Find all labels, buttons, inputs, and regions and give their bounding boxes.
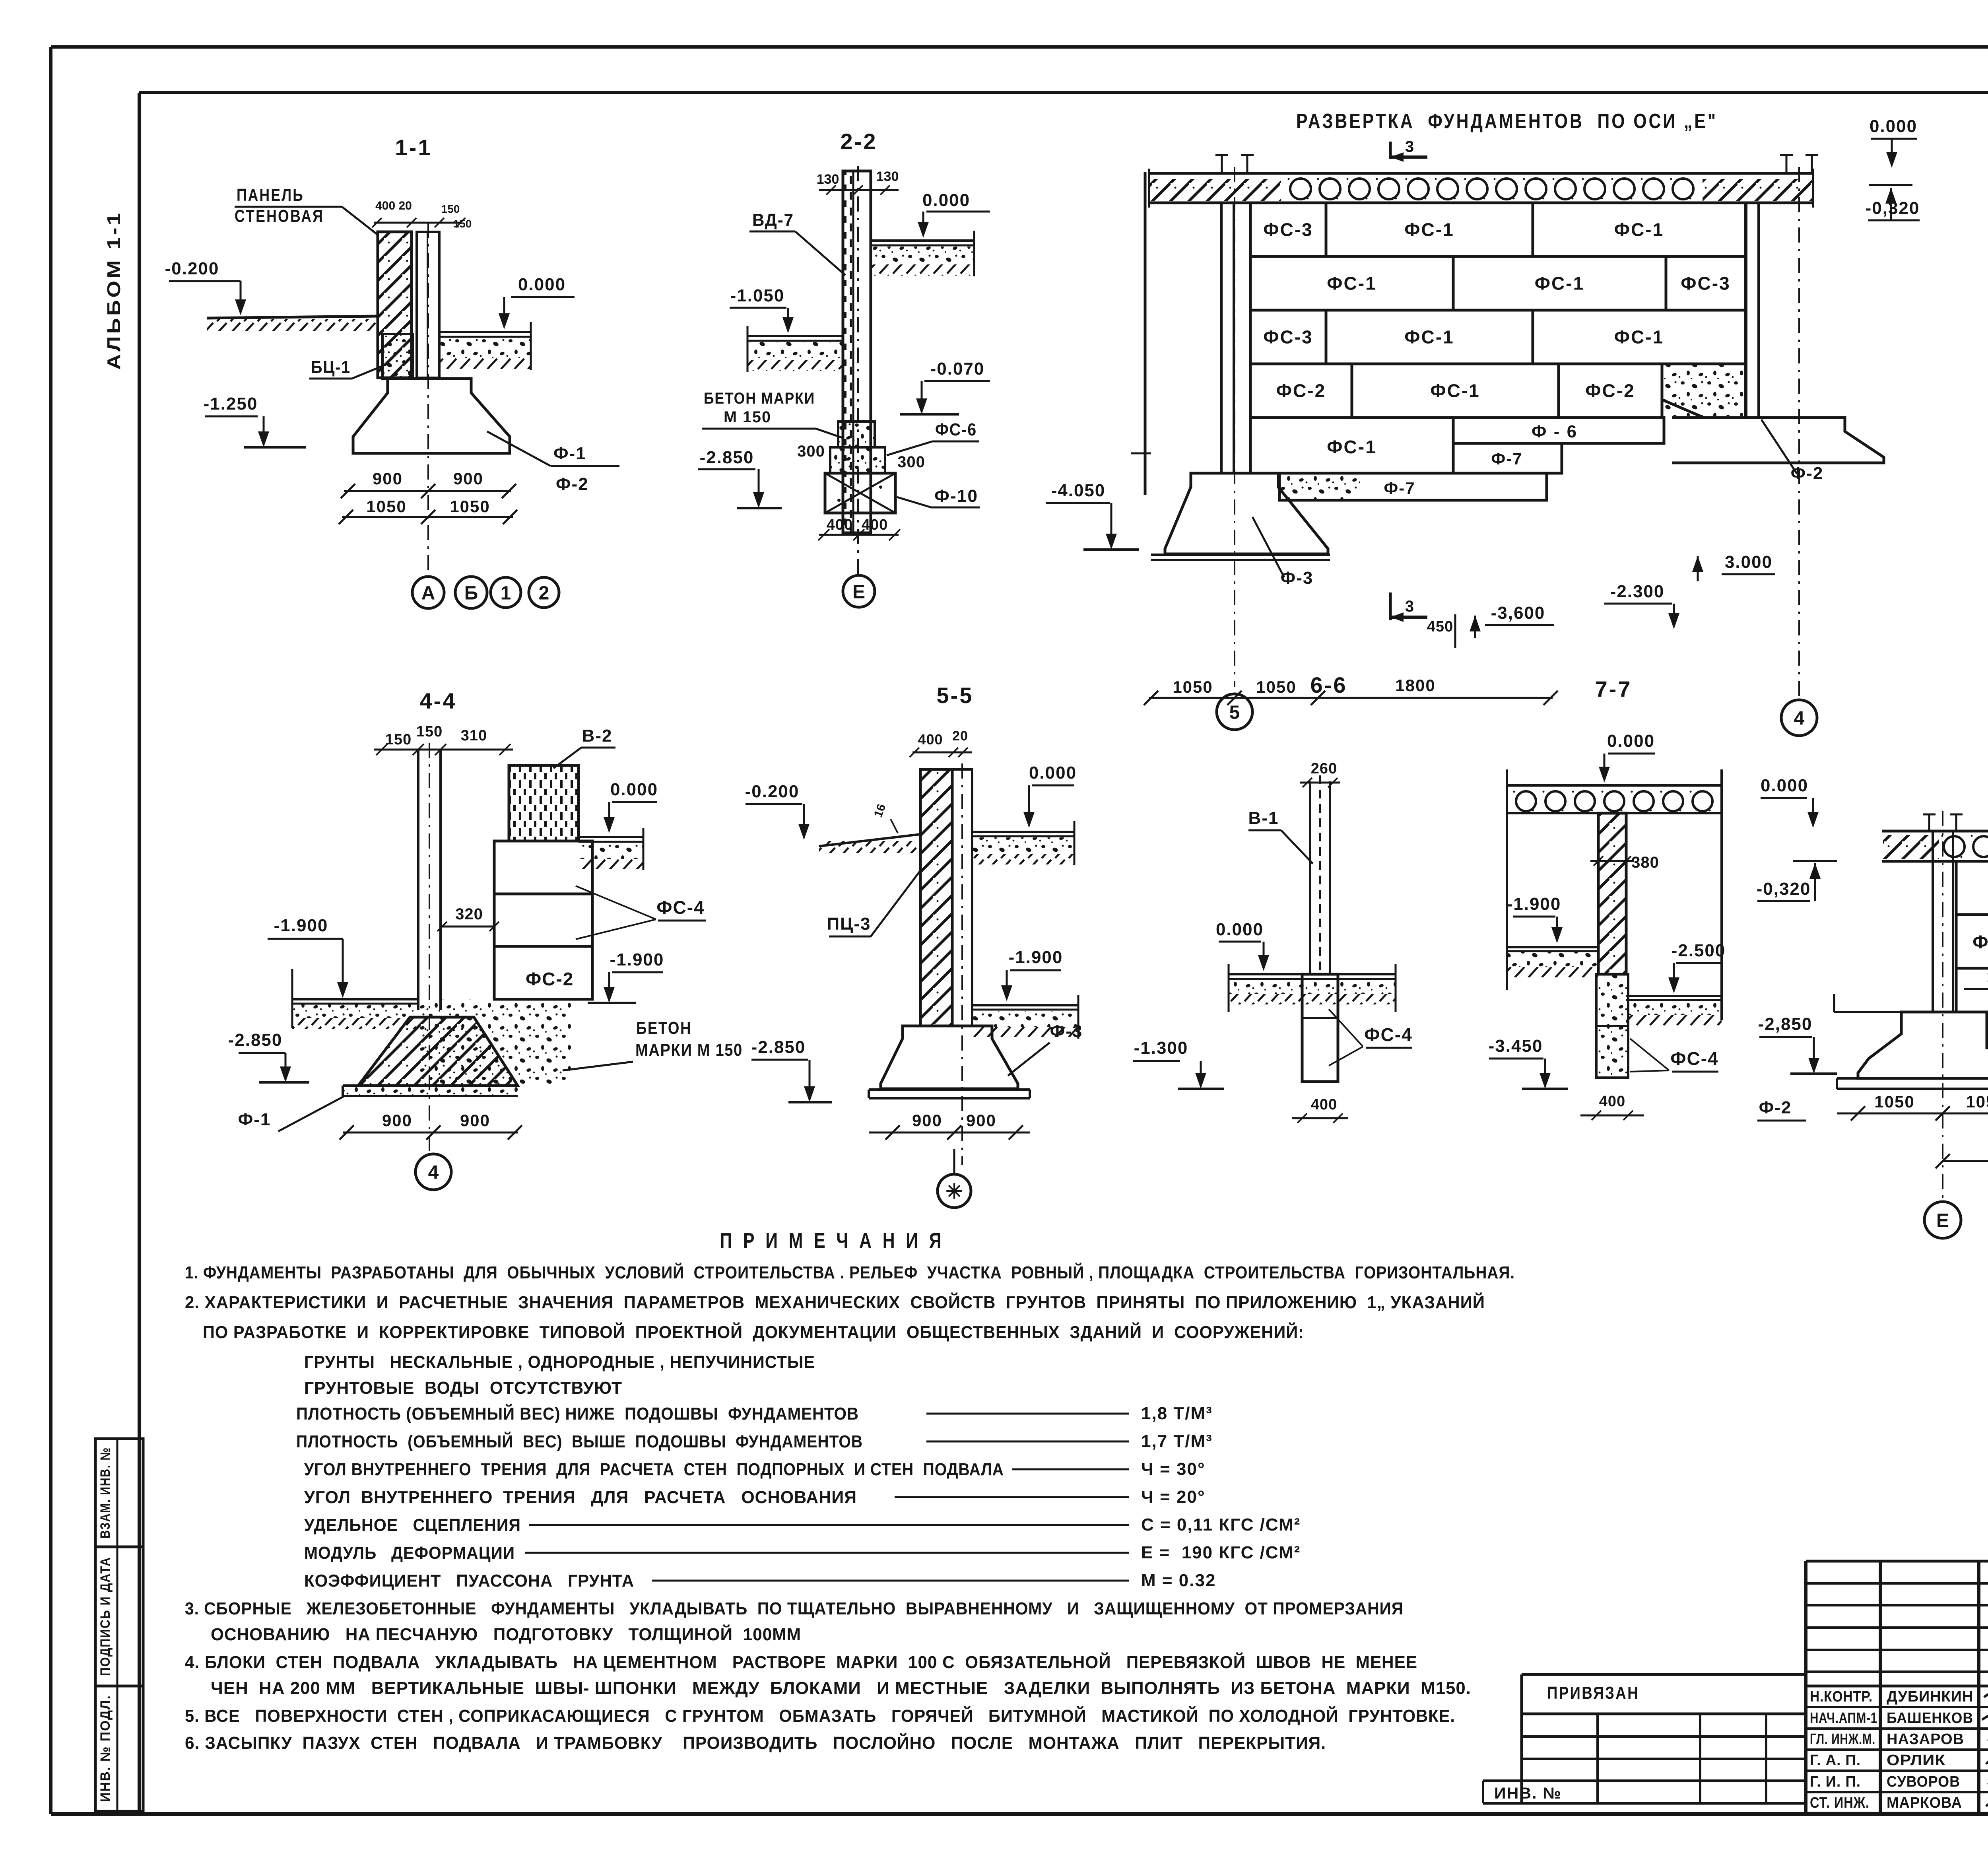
svg-text:АЛЬБОМ 1-1: АЛЬБОМ 1-1 [103, 211, 124, 370]
svg-text:ГРУНТЫ НЕСКАЛЬНЫЕ , ОДНОРОДН: ГРУНТЫ НЕСКАЛЬНЫЕ , ОДНОРОДНЫЕ , НЕПУЧИН… [304, 1352, 815, 1372]
svg-text:-1.900: -1.900 [1009, 948, 1063, 967]
svg-text:-1.050: -1.050 [730, 286, 785, 305]
svg-text:-3,600: -3,600 [1491, 603, 1545, 623]
svg-text:ФС-1: ФС-1 [1614, 219, 1664, 240]
svg-text:4: 4 [1794, 708, 1805, 729]
svg-text:Ф-7: Ф-7 [1491, 449, 1522, 468]
svg-text:Ф-3: Ф-3 [1050, 1022, 1083, 1041]
svg-text:БЦ-1: БЦ-1 [311, 357, 351, 377]
svg-text:Е: Е [1936, 1210, 1949, 1231]
svg-text:ФС-4: ФС-4 [1670, 1048, 1718, 1069]
svg-text:✳: ✳ [945, 1180, 963, 1203]
svg-text:400: 400 [827, 517, 853, 533]
svg-text:ФС-6: ФС-6 [935, 420, 977, 439]
svg-text:150: 150 [453, 218, 472, 230]
svg-text:П Р И М Е Ч А Н И Я: П Р И М Е Ч А Н И Я [720, 1229, 945, 1253]
svg-text:БАШЕНКОВ: БАШЕНКОВ [1887, 1710, 1973, 1727]
svg-text:-4.050: -4.050 [1051, 481, 1106, 500]
svg-text:1-1: 1-1 [395, 135, 432, 160]
svg-text:СТЕНОВАЯ: СТЕНОВАЯ [235, 206, 324, 226]
svg-text:ПЛОТНОСТЬ (ОБЪЕМНЫЙ ВЕС) НИЖЕ: ПЛОТНОСТЬ (ОБЪЕМНЫЙ ВЕС) НИЖЕ ПОДОШВЫ ФУ… [296, 1403, 859, 1424]
svg-text:3.000: 3.000 [1725, 552, 1773, 572]
svg-text:ВД-7: ВД-7 [752, 210, 794, 230]
svg-text:3: 3 [1405, 138, 1414, 155]
svg-text:-2.850: -2.850 [751, 1037, 806, 1057]
svg-text:А: А [421, 583, 435, 604]
svg-text:400: 400 [862, 517, 888, 533]
svg-text:Ф-2: Ф-2 [556, 474, 589, 494]
svg-text:0.000: 0.000 [610, 780, 658, 799]
svg-text:300: 300 [897, 453, 925, 471]
svg-text:1,8 Т/М³: 1,8 Т/М³ [1141, 1404, 1213, 1423]
svg-text:ФС-1: ФС-1 [1535, 273, 1584, 294]
svg-text:2-2: 2-2 [841, 129, 878, 154]
svg-text:-2,850: -2,850 [1758, 1014, 1813, 1034]
svg-text:-1.900: -1.900 [1507, 894, 1561, 914]
svg-text:5-5: 5-5 [937, 683, 974, 708]
svg-text:1050: 1050 [1966, 1092, 1988, 1111]
svg-text:380: 380 [1631, 854, 1659, 871]
svg-text:1: 1 [501, 583, 511, 604]
svg-text:МАРКИ М 150: МАРКИ М 150 [635, 1040, 743, 1060]
svg-text:ФС-2: ФС-2 [1276, 381, 1326, 401]
svg-text:НАЧ.АПМ-1: НАЧ.АПМ-1 [1810, 1710, 1877, 1727]
svg-text:Б: Б [464, 583, 478, 604]
svg-text:300: 300 [797, 443, 825, 460]
svg-text:СТ. ИНЖ.: СТ. ИНЖ. [1810, 1795, 1870, 1811]
svg-text:6-6: 6-6 [1310, 672, 1347, 697]
svg-text:400: 400 [918, 731, 943, 748]
svg-text:-0,320: -0,320 [1757, 879, 1811, 899]
svg-text:КОЭФФИЦИЕНТ ПУАССОНА ГРУНТ: КОЭФФИЦИЕНТ ПУАССОНА ГРУНТА [304, 1571, 634, 1591]
svg-text:-3.450: -3.450 [1489, 1036, 1543, 1056]
svg-text:ПЦ-3: ПЦ-3 [827, 914, 871, 934]
svg-text:400: 400 [1311, 1096, 1337, 1113]
svg-text:В-1: В-1 [1248, 808, 1279, 828]
svg-text:400: 400 [1599, 1093, 1625, 1110]
svg-text:-0.200: -0.200 [165, 259, 219, 278]
svg-text:Ф - 6: Ф - 6 [1532, 422, 1578, 441]
svg-text:ПАНЕЛЬ: ПАНЕЛЬ [237, 185, 304, 205]
svg-text:Ф-10: Ф-10 [934, 486, 978, 506]
svg-text:ПРИВЯЗАН: ПРИВЯЗАН [1547, 1683, 1639, 1703]
svg-text:ФС-1: ФС-1 [1327, 273, 1376, 294]
svg-text:1280: 1280 [1987, 968, 1988, 986]
svg-text:5. ВСЕ ПОВЕРХНОСТИ СТЕН , С: 5. ВСЕ ПОВЕРХНОСТИ СТЕН , СОПРИКАСАЮЩИЕС… [185, 1705, 1455, 1726]
svg-text:310: 310 [461, 727, 487, 744]
svg-text:УДЕЛЬНОЕ СЦЕПЛЕНИЯ: УДЕЛЬНОЕ СЦЕПЛЕНИЯ [304, 1515, 521, 1535]
svg-text:ФС-1: ФС-1 [1614, 327, 1664, 348]
svg-text:-2.500: -2.500 [1672, 941, 1726, 960]
svg-text:2: 2 [539, 583, 549, 604]
svg-text:ИНВ. №: ИНВ. № [1494, 1785, 1562, 1802]
svg-text:6. ЗАСЫПКУ ПАЗУХ СТЕН ПОДВ: 6. ЗАСЫПКУ ПАЗУХ СТЕН ПОДВАЛА И ТРАМБОВК… [185, 1733, 1326, 1753]
svg-text:ВЗАМ. ИНВ. №: ВЗАМ. ИНВ. № [98, 1447, 113, 1538]
svg-text:900: 900 [373, 469, 403, 488]
svg-text:-2.850: -2.850 [700, 448, 754, 467]
svg-text:0.000: 0.000 [1870, 117, 1917, 136]
svg-text:М = 0.32: М = 0.32 [1141, 1571, 1216, 1590]
svg-text:ФС-1: ФС-1 [1404, 219, 1454, 240]
svg-text:260: 260 [1311, 760, 1337, 777]
svg-text:ПЛОТНОСТЬ (ОБЪЕМНЫЙ ВЕС) ВЫ: ПЛОТНОСТЬ (ОБЪЕМНЫЙ ВЕС) ВЫШЕ ПОДОШВЫ ФУ… [296, 1431, 863, 1451]
svg-text:0.000: 0.000 [1761, 776, 1808, 795]
svg-text:Е: Е [852, 581, 865, 602]
svg-text:ФС-4: ФС-4 [656, 897, 705, 918]
svg-text:-0.200: -0.200 [745, 782, 800, 801]
svg-text:Ф-7: Ф-7 [1384, 479, 1415, 497]
svg-text:ФС-1: ФС-1 [1430, 381, 1480, 401]
svg-text:-1.900: -1.900 [274, 916, 328, 935]
svg-text:ПО РАЗРАБОТКЕ И КОРРЕКТИРОВК: ПО РАЗРАБОТКЕ И КОРРЕКТИРОВКЕ ТИПОВОЙ ПР… [203, 1322, 1304, 1342]
svg-text:ФС-1: ФС-1 [1404, 327, 1454, 348]
svg-text:7-7: 7-7 [1595, 676, 1632, 701]
svg-text:0.000: 0.000 [922, 190, 970, 210]
svg-text:Г. А. П.: Г. А. П. [1810, 1752, 1861, 1769]
svg-text:900: 900 [966, 1111, 996, 1130]
svg-text:ПОДПИСЬ И ДАТА: ПОДПИСЬ И ДАТА [98, 1557, 113, 1676]
svg-text:Ф-1: Ф-1 [238, 1110, 271, 1129]
svg-text:0.000: 0.000 [1607, 731, 1655, 751]
svg-text:-2.300: -2.300 [1610, 582, 1665, 601]
svg-text:СУВОРОВ: СУВОРОВ [1887, 1773, 1960, 1790]
svg-text:УГОЛ ВНУТРЕННЕГО ТРЕНИЯ ДЛЯ: УГОЛ ВНУТРЕННЕГО ТРЕНИЯ ДЛЯ РАСЧЕТА СТЕН… [304, 1460, 1004, 1479]
svg-text:ФС-2: ФС-2 [526, 969, 574, 989]
svg-text:Н.КОНТР.: Н.КОНТР. [1810, 1688, 1873, 1705]
svg-text:0.000: 0.000 [1029, 763, 1077, 783]
svg-text:1050: 1050 [366, 497, 406, 516]
svg-text:Ф-1: Ф-1 [553, 444, 586, 463]
svg-text:ФС-2: ФС-2 [1585, 381, 1635, 401]
svg-text:1050: 1050 [1874, 1092, 1914, 1111]
svg-text:РАЗВЕРТКА ФУНДАМЕНТОВ ПО ОСИ: РАЗВЕРТКА ФУНДАМЕНТОВ ПО ОСИ „Е" [1296, 110, 1718, 133]
svg-text:20: 20 [952, 728, 968, 744]
svg-text:ГРУНТОВЫЕ ВОДЫ ОТСУТСТВУЮТ: ГРУНТОВЫЕ ВОДЫ ОТСУТСТВУЮТ [304, 1378, 622, 1398]
svg-text:5: 5 [1229, 702, 1240, 723]
svg-text:ФС-3: ФС-3 [1263, 219, 1313, 240]
svg-text:1. ФУНДАМЕНТЫ РАЗРАБОТАНЫ ДЛ: 1. ФУНДАМЕНТЫ РАЗРАБОТАНЫ ДЛЯ ОБЫЧНЫХ УС… [185, 1262, 1515, 1282]
svg-text:МАРКОВА: МАРКОВА [1887, 1795, 1962, 1811]
svg-text:1050: 1050 [1256, 678, 1296, 696]
svg-text:С = 0,11 КГС /СМ²: С = 0,11 КГС /СМ² [1141, 1515, 1301, 1535]
svg-text:Ф-3: Ф-3 [1281, 568, 1314, 588]
svg-text:1,7 Т/М³: 1,7 Т/М³ [1141, 1432, 1213, 1451]
svg-text:150: 150 [385, 731, 412, 748]
svg-text:МОДУЛЬ ДЕФОРМАЦИИ: МОДУЛЬ ДЕФОРМАЦИИ [304, 1543, 515, 1563]
svg-text:130: 130 [876, 169, 899, 184]
svg-text:ОРЛИК: ОРЛИК [1887, 1752, 1945, 1769]
svg-text:ИНВ. № ПОДЛ.: ИНВ. № ПОДЛ. [98, 1695, 113, 1802]
svg-text:ФС-4: ФС-4 [1364, 1024, 1412, 1045]
svg-text:0.000: 0.000 [518, 275, 566, 294]
svg-text:1800: 1800 [1395, 676, 1435, 695]
svg-text:М 150: М 150 [724, 408, 771, 426]
svg-text:-1.250: -1.250 [204, 394, 258, 414]
svg-text:ФС-1: ФС-1 [1327, 437, 1376, 457]
svg-text:ФС-3: ФС-3 [1972, 932, 1988, 952]
svg-text:450: 450 [1427, 618, 1453, 635]
svg-text:Г. И. П.: Г. И. П. [1810, 1773, 1861, 1790]
svg-text:900: 900 [912, 1111, 942, 1130]
svg-text:-1.900: -1.900 [610, 950, 664, 969]
svg-text:ФС-3: ФС-3 [1681, 273, 1730, 294]
svg-text:УГОЛ ВНУТРЕННЕГО ТРЕНИЯ ДЛ: УГОЛ ВНУТРЕННЕГО ТРЕНИЯ ДЛЯ РАСЧЕТА ОСНО… [304, 1488, 857, 1507]
svg-text:130: 130 [817, 172, 839, 187]
svg-text:НАЗАРОВ: НАЗАРОВ [1887, 1731, 1964, 1748]
svg-text:ФС-3: ФС-3 [1263, 327, 1313, 348]
svg-text:150: 150 [416, 723, 443, 740]
svg-text:В-2: В-2 [582, 726, 613, 746]
svg-text:150: 150 [441, 203, 460, 215]
svg-text:2. ХАРАКТЕРИСТИКИ И РАСЧЕТНЫ: 2. ХАРАКТЕРИСТИКИ И РАСЧЕТНЫЕ ЗНАЧЕНИЯ П… [185, 1292, 1485, 1312]
svg-text:4. БЛОКИ СТЕН ПОДВАЛА УКЛА: 4. БЛОКИ СТЕН ПОДВАЛА УКЛАДЫВАТЬ НА ЦЕМЕ… [185, 1652, 1417, 1672]
svg-text:900: 900 [382, 1111, 412, 1130]
svg-text:-1.300: -1.300 [1134, 1038, 1188, 1058]
svg-text:Е = 190 КГС /СМ²: Е = 190 КГС /СМ² [1141, 1543, 1301, 1562]
svg-text:БЕТОН МАРКИ: БЕТОН МАРКИ [704, 390, 815, 407]
svg-text:3. СБОРНЫЕ ЖЕЛЕЗОБЕТОННЫЕ: 3. СБОРНЫЕ ЖЕЛЕЗОБЕТОННЫЕ ФУНДАМЕНТЫ УКЛ… [185, 1599, 1404, 1618]
svg-text:4: 4 [428, 1162, 439, 1183]
svg-text:1050: 1050 [450, 497, 490, 516]
svg-text:-2.850: -2.850 [228, 1030, 283, 1050]
svg-text:ДУБИНКИН: ДУБИНКИН [1887, 1688, 1973, 1705]
svg-text:320: 320 [455, 905, 483, 923]
svg-text:0.000: 0.000 [1216, 920, 1264, 939]
svg-text:4-4: 4-4 [420, 688, 457, 713]
svg-text:Ч = 30°: Ч = 30° [1141, 1459, 1206, 1479]
svg-text:-0.070: -0.070 [930, 359, 985, 379]
svg-text:900: 900 [460, 1111, 490, 1130]
svg-text:ОСНОВАНИЮ НА ПЕСЧАНУЮ ПОДГ: ОСНОВАНИЮ НА ПЕСЧАНУЮ ПОДГОТОВКУ ТОЛЩИНО… [211, 1624, 801, 1644]
svg-text:1050: 1050 [1173, 678, 1213, 696]
svg-text:БЕТОН: БЕТОН [636, 1018, 692, 1038]
svg-text:400 20: 400 20 [375, 199, 412, 212]
svg-text:ЧЕН НА 200 ММ ВЕРТИКАЛЬНЫЕ: ЧЕН НА 200 ММ ВЕРТИКАЛЬНЫЕ ШВЫ- ШПОНКИ М… [211, 1678, 1471, 1698]
svg-text:ГЛ. ИНЖ.М.: ГЛ. ИНЖ.М. [1810, 1731, 1875, 1748]
svg-text:Ч = 20°: Ч = 20° [1141, 1487, 1206, 1507]
svg-text:Ф-2: Ф-2 [1759, 1098, 1792, 1117]
svg-text:900: 900 [453, 469, 483, 488]
svg-text:3: 3 [1405, 598, 1414, 615]
